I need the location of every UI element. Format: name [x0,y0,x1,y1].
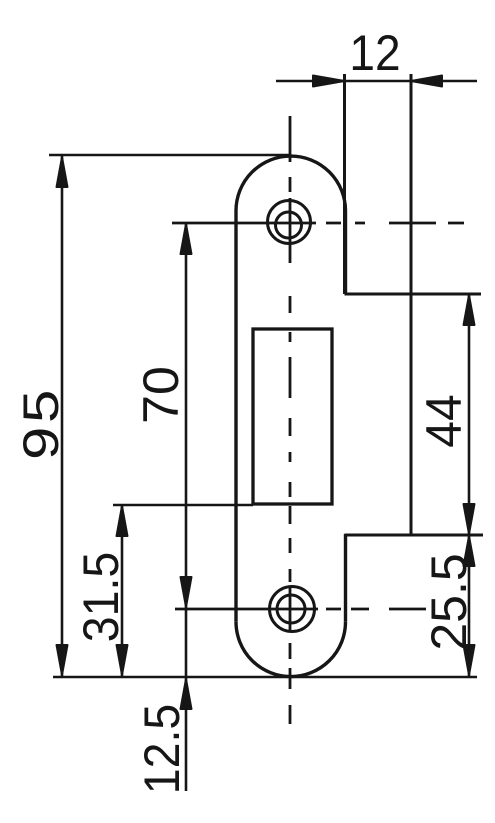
dimension line 95 [61,156,64,676]
plate outline lower right edge [344,534,347,622]
svg-text:95: 95 [13,386,69,460]
lip right edge with extension to 12-dimension [410,74,413,534]
bottom screw hole outer circle [270,587,315,632]
extension line bottom of plate (shared by 95 and 25.5) [53,676,477,679]
top screw hole outer circle [268,201,311,244]
lip bottom edge with extension to 44/25.5-dimension [345,534,484,537]
arrow 95 bottom (pointing down) [57,645,68,675]
dimension line 31.5 [121,505,124,676]
plate outline left edge, top arc, upper right edge [236,156,346,622]
svg-text:31.5: 31.5 [73,552,129,642]
svg-text:70: 70 [133,366,189,424]
arrow 44 top (pointing up) [464,295,475,325]
dimension line 44 and 25.5 [468,294,471,676]
plate outline bottom arc [236,622,346,677]
svg-text:12: 12 [349,26,400,81]
dimension line 12 [276,80,477,83]
extension line cutout bottom [113,504,253,507]
extension line top of plate [49,154,290,157]
arrow 25.5 bottom (pointing down) [464,645,475,675]
arrow 70 bottom / 12.5 top (pointing down) [181,577,192,607]
lip top edge with extension to 44-dimension [345,293,482,296]
arrow 12 left (pointing right) [313,76,345,87]
arrow 44 bottom (pointing down) [464,504,475,534]
top screw hole inner circle [276,212,302,238]
arrow 31.5 bottom (pointing down) [117,645,128,675]
vertical center line (dash-dot) [289,116,292,724]
svg-text:25.5: 25.5 [421,553,477,650]
arrow 12 right (pointing left) [411,76,442,87]
arrow 25.5 top (pointing up) [464,536,475,566]
arrow 12.5 bottom (pointing up, below plate) [181,679,192,709]
top hole horizontal center line / 70-extension [172,222,464,225]
svg-text:12.5: 12.5 [134,704,190,794]
bottom screw hole inner circle [277,595,305,623]
latch cutout rectangle [253,329,332,504]
dimension line 70 and 12.5 [185,223,188,791]
bottom hole horizontal center line / 70-extension [175,608,426,611]
svg-text:44: 44 [417,394,472,447]
extension line 12 left (plate right edge) [343,74,346,294]
arrow 31.5 top (pointing up) [117,506,128,536]
arrow 70 top (pointing up) [181,224,192,254]
arrow 95 top (pointing up) [57,157,68,187]
